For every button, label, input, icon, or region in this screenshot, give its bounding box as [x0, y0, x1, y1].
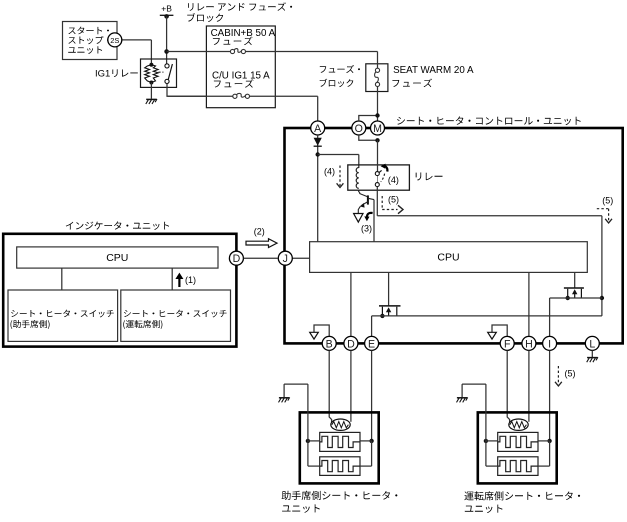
- svg-text:(5): (5): [388, 195, 399, 205]
- svg-text:(2): (2): [254, 226, 265, 236]
- svg-text:(5): (5): [565, 368, 576, 378]
- svg-text:E: E: [368, 338, 375, 350]
- svg-text:IG1: IG1: [95, 69, 110, 80]
- svg-text:(4): (4): [388, 175, 399, 185]
- svg-text:J: J: [283, 253, 288, 265]
- svg-text:2S: 2S: [110, 36, 119, 45]
- svg-text:CPU: CPU: [437, 252, 459, 264]
- svg-text:L: L: [589, 338, 595, 350]
- svg-text:+B: +B: [161, 3, 172, 13]
- svg-text:(5): (5): [602, 196, 613, 206]
- svg-text:I: I: [548, 338, 551, 350]
- svg-text:M: M: [373, 123, 382, 135]
- svg-text:D: D: [347, 338, 355, 350]
- svg-text:C/U IG1 15 A: C/U IG1 15 A: [212, 70, 270, 81]
- svg-text:(3): (3): [361, 224, 372, 234]
- svg-text:O: O: [355, 123, 363, 135]
- svg-text:F: F: [504, 338, 511, 350]
- svg-text:B: B: [326, 338, 333, 350]
- svg-text:CABIN+B 50 A: CABIN+B 50 A: [211, 28, 276, 39]
- svg-text:(1): (1): [185, 275, 196, 285]
- svg-text:A: A: [314, 123, 322, 135]
- svg-text:H: H: [525, 338, 533, 350]
- svg-text:SEAT WARM 20 A: SEAT WARM 20 A: [393, 65, 474, 76]
- svg-text:(4): (4): [324, 167, 335, 177]
- svg-text:D: D: [233, 253, 241, 265]
- svg-text:CPU: CPU: [106, 252, 128, 264]
